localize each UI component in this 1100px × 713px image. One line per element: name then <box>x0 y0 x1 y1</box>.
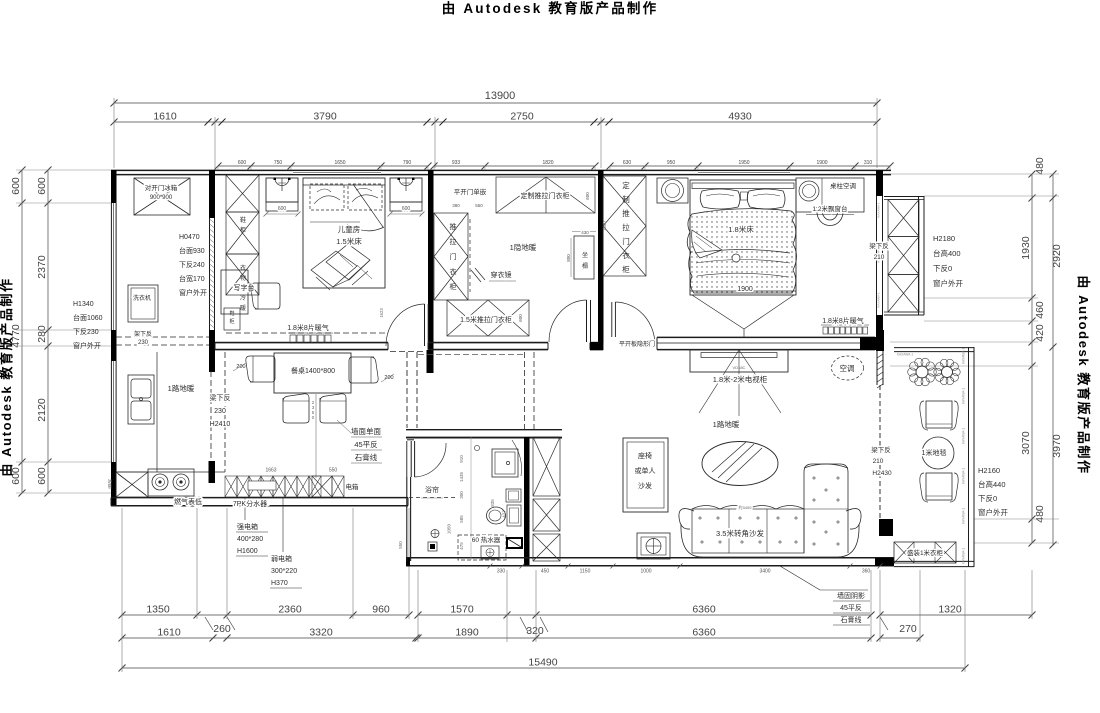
svg-text:柜: 柜 <box>450 282 457 291</box>
svg-text:对开门冰箱: 对开门冰箱 <box>145 183 178 192</box>
svg-text:KAXAWA-1: KAXAWA-1 <box>962 428 966 444</box>
svg-text:沙发: 沙发 <box>638 481 652 490</box>
svg-text:强电箱: 强电箱 <box>237 522 258 531</box>
svg-text:定制推拉门衣柜: 定制推拉门衣柜 <box>521 191 570 200</box>
svg-text:960: 960 <box>372 604 390 616</box>
svg-text:1435: 1435 <box>459 471 464 482</box>
svg-text:座椅: 座椅 <box>638 451 652 460</box>
svg-text:儿童房: 儿童房 <box>338 224 361 234</box>
svg-text:1623: 1623 <box>379 308 384 318</box>
svg-text:H0470: H0470 <box>179 234 200 241</box>
svg-text:600: 600 <box>36 177 48 195</box>
svg-text:933: 933 <box>452 160 461 166</box>
svg-text:900*900: 900*900 <box>150 195 173 201</box>
svg-text:H1600: H1600 <box>237 548 258 555</box>
svg-text:3320: 3320 <box>309 627 333 639</box>
svg-text:下反0: 下反0 <box>978 493 997 503</box>
svg-text:由 Autodesk 教育版产品制作: 由 Autodesk 教育版产品制作 <box>1076 275 1091 474</box>
svg-text:台高400: 台高400 <box>933 248 961 258</box>
svg-text:3.5米转角沙发: 3.5米转角沙发 <box>716 528 764 538</box>
svg-text:管: 管 <box>108 483 113 490</box>
svg-text:柜: 柜 <box>240 226 246 234</box>
svg-text:200: 200 <box>236 364 245 370</box>
svg-text:衣: 衣 <box>240 264 246 272</box>
svg-text:电箱: 电箱 <box>346 482 360 491</box>
svg-text:360: 360 <box>862 569 871 575</box>
svg-text:600: 600 <box>518 314 523 322</box>
svg-text:推: 推 <box>622 208 630 218</box>
svg-text:1900: 1900 <box>737 286 753 293</box>
svg-text:1.8米8片暖气: 1.8米8片暖气 <box>822 316 864 325</box>
svg-text:260: 260 <box>213 623 231 635</box>
svg-text:310: 310 <box>864 160 873 166</box>
svg-text:585: 585 <box>459 515 464 523</box>
svg-text:1663: 1663 <box>265 468 276 474</box>
svg-text:1.8米-2米电视柜: 1.8米-2米电视柜 <box>713 374 768 384</box>
svg-text:950: 950 <box>667 160 676 166</box>
svg-text:柜: 柜 <box>229 318 234 325</box>
svg-text:6360: 6360 <box>692 604 716 616</box>
svg-text:穿衣镜: 穿衣镜 <box>491 270 512 279</box>
svg-text:2120: 2120 <box>36 398 48 422</box>
svg-text:210: 210 <box>874 254 885 261</box>
svg-text:由 Autodesk 教育版产品制作: 由 Autodesk 教育版产品制作 <box>442 0 659 16</box>
svg-text:320: 320 <box>526 625 544 637</box>
svg-text:15490: 15490 <box>528 657 557 669</box>
svg-text:KAXAWA-1: KAXAWA-1 <box>962 468 966 484</box>
svg-text:280: 280 <box>36 325 48 343</box>
svg-text:物: 物 <box>240 274 246 282</box>
svg-text:270: 270 <box>899 623 917 635</box>
svg-text:1610: 1610 <box>153 111 177 123</box>
svg-text:鞋: 鞋 <box>240 216 246 224</box>
svg-text:210: 210 <box>873 458 884 465</box>
svg-text:KAXAWA-1: KAXAWA-1 <box>962 348 966 364</box>
svg-text:1.5米推拉门衣柜: 1.5米推拉门衣柜 <box>460 315 512 324</box>
svg-text:H2180: H2180 <box>933 234 955 243</box>
svg-text:窗户外开: 窗户外开 <box>933 278 963 288</box>
svg-text:窗户外开: 窗户外开 <box>179 288 207 297</box>
svg-text:1900: 1900 <box>816 160 827 166</box>
svg-text:石膏线: 石膏线 <box>355 452 378 462</box>
svg-text:300*220: 300*220 <box>271 568 297 575</box>
svg-text:门: 门 <box>450 252 457 261</box>
svg-text:1350: 1350 <box>146 604 170 616</box>
svg-text:1000: 1000 <box>640 569 651 575</box>
svg-text:燃气表低: 燃气表低 <box>174 497 202 506</box>
svg-text:60 热水器: 60 热水器 <box>472 535 501 544</box>
svg-text:KAXAWA-1: KAXAWA-1 <box>962 388 966 404</box>
svg-text:3790: 3790 <box>313 111 337 123</box>
svg-text:梁下反: 梁下反 <box>210 393 231 402</box>
svg-text:冷: 冷 <box>240 294 246 302</box>
svg-text:600: 600 <box>278 206 287 212</box>
svg-text:910: 910 <box>459 455 464 463</box>
svg-text:2750: 2750 <box>510 111 534 123</box>
svg-text:800: 800 <box>566 254 571 262</box>
svg-text:4930: 4930 <box>728 111 752 123</box>
svg-text:坐: 坐 <box>582 251 588 259</box>
svg-text:450: 450 <box>541 569 550 575</box>
svg-text:定: 定 <box>622 180 630 190</box>
svg-text:或单人: 或单人 <box>635 466 656 475</box>
svg-text:1320: 1320 <box>938 604 962 616</box>
svg-text:600: 600 <box>10 177 22 195</box>
svg-text:柜: 柜 <box>622 264 630 274</box>
svg-text:1500: 1500 <box>248 283 253 293</box>
svg-text:衣: 衣 <box>450 267 457 276</box>
svg-text:1.8米8片暖气: 1.8米8片暖气 <box>287 323 329 332</box>
svg-text:330: 330 <box>497 569 506 575</box>
svg-text:梁下反: 梁下反 <box>869 241 889 250</box>
svg-text:拉: 拉 <box>622 222 630 232</box>
svg-text:1.8米床: 1.8米床 <box>728 224 754 234</box>
svg-text:200: 200 <box>384 375 393 381</box>
svg-text:梁下反: 梁下反 <box>871 445 891 454</box>
svg-text:推: 推 <box>450 222 457 231</box>
svg-text:1950: 1950 <box>738 160 749 166</box>
svg-text:KAXAWA-1: KAXAWA-1 <box>962 508 966 524</box>
svg-text:桌柱空调: 桌柱空调 <box>830 181 856 190</box>
svg-text:下反0: 下反0 <box>933 263 952 273</box>
svg-text:1.2米飘窗台: 1.2米飘窗台 <box>812 204 847 213</box>
svg-text:空调: 空调 <box>840 363 855 373</box>
svg-text:H2410: H2410 <box>210 421 231 428</box>
svg-text:1820: 1820 <box>542 160 553 166</box>
svg-text:窗户外开: 窗户外开 <box>978 507 1008 517</box>
svg-text:3070: 3070 <box>1020 431 1032 455</box>
svg-text:拉: 拉 <box>450 237 457 246</box>
svg-text:1890: 1890 <box>455 627 479 639</box>
svg-text:约3400: 约3400 <box>739 504 753 510</box>
svg-text:鞋: 鞋 <box>229 310 234 317</box>
svg-text:餐桌1400*800: 餐桌1400*800 <box>291 366 335 375</box>
svg-text:暖: 暖 <box>240 304 246 312</box>
svg-text:1隐地暖: 1隐地暖 <box>510 242 537 252</box>
svg-text:1.5米床: 1.5米床 <box>336 236 362 246</box>
svg-text:3970: 3970 <box>1051 434 1063 458</box>
svg-text:3400: 3400 <box>759 569 770 575</box>
svg-text:台面1060: 台面1060 <box>73 313 103 322</box>
svg-text:1800: 1800 <box>602 221 607 231</box>
svg-text:KAXAWA-1: KAXAWA-1 <box>962 548 966 564</box>
svg-text:石膏线: 石膏线 <box>841 615 862 624</box>
svg-text:盛装1米衣柜: 盛装1米衣柜 <box>907 548 944 557</box>
svg-text:弱电箱: 弱电箱 <box>271 554 292 563</box>
svg-text:衣: 衣 <box>622 250 630 260</box>
svg-text:790: 790 <box>403 160 412 166</box>
svg-text:台高440: 台高440 <box>978 479 1006 489</box>
svg-text:浴帘: 浴帘 <box>425 485 439 494</box>
svg-text:1米地毯: 1米地毯 <box>922 448 947 457</box>
svg-text:KAXAWA-1: KAXAWA-1 <box>897 353 913 357</box>
svg-text:2360: 2360 <box>278 604 302 616</box>
svg-text:7PK分水器: 7PK分水器 <box>233 499 267 508</box>
svg-text:230: 230 <box>214 408 226 415</box>
svg-text:630: 630 <box>623 160 632 166</box>
svg-text:420: 420 <box>1034 324 1046 342</box>
svg-text:1路地暖: 1路地暖 <box>713 419 740 429</box>
svg-text:600: 600 <box>238 160 247 166</box>
svg-text:550: 550 <box>475 203 483 208</box>
svg-text:墙面单面: 墙面单面 <box>351 426 381 436</box>
svg-text:230: 230 <box>138 340 149 346</box>
svg-text:H2430: H2430 <box>872 470 892 477</box>
svg-text:由 Autodesk 教育版产品制作: 由 Autodesk 教育版产品制作 <box>0 277 14 476</box>
svg-text:台面930: 台面930 <box>179 246 205 255</box>
svg-text:1路地暖: 1路地暖 <box>168 383 195 393</box>
svg-text:1610: 1610 <box>157 627 181 639</box>
svg-text:H370: H370 <box>271 580 288 587</box>
svg-text:下反240: 下反240 <box>179 260 205 269</box>
svg-text:榻: 榻 <box>582 262 588 270</box>
svg-text:KAXAWA-1: KAXAWA-1 <box>877 292 881 308</box>
svg-text:45平反: 45平反 <box>354 439 378 449</box>
svg-text:门: 门 <box>622 237 630 246</box>
svg-text:下反230: 下反230 <box>73 327 99 336</box>
svg-text:835: 835 <box>490 499 495 507</box>
svg-text:480: 480 <box>1034 505 1046 523</box>
svg-text:600: 600 <box>402 206 411 212</box>
svg-text:墙固阴影: 墙固阴影 <box>837 591 865 600</box>
svg-text:475: 475 <box>459 542 464 550</box>
svg-text:洗衣机: 洗衣机 <box>133 294 151 302</box>
svg-text:平开门单嵌: 平开门单嵌 <box>454 187 487 196</box>
svg-text:600: 600 <box>36 467 48 485</box>
svg-text:1150: 1150 <box>580 569 591 575</box>
svg-text:1650: 1650 <box>334 160 345 166</box>
svg-text:窗户外开: 窗户外开 <box>73 341 101 350</box>
svg-text:2370: 2370 <box>36 255 48 279</box>
svg-text:750: 750 <box>274 160 283 166</box>
svg-text:6360: 6360 <box>692 627 716 639</box>
svg-text:45平反: 45平反 <box>840 603 862 612</box>
svg-text:480: 480 <box>1034 157 1046 175</box>
svg-text:1050: 1050 <box>447 523 452 534</box>
svg-text:300: 300 <box>459 491 464 499</box>
svg-text:13900: 13900 <box>485 90 516 102</box>
svg-text:架下反: 架下反 <box>134 330 152 338</box>
svg-text:550: 550 <box>329 468 338 474</box>
svg-text:H2160: H2160 <box>978 466 1000 475</box>
svg-text:2920: 2920 <box>1051 244 1063 268</box>
svg-text:H1340: H1340 <box>73 301 94 308</box>
svg-text:制: 制 <box>622 194 630 204</box>
svg-text:430: 430 <box>581 230 589 235</box>
svg-text:600: 600 <box>585 192 590 200</box>
svg-text:400*280: 400*280 <box>237 536 263 543</box>
svg-text:平开板隐形门: 平开板隐形门 <box>619 340 655 348</box>
svg-text:1930: 1930 <box>1020 236 1032 260</box>
svg-text:1570: 1570 <box>450 604 474 616</box>
svg-text:460: 460 <box>1034 301 1046 319</box>
svg-text:台宽170: 台宽170 <box>179 274 205 283</box>
svg-text:KAXAWA-1: KAXAWA-1 <box>877 202 881 218</box>
svg-text:550: 550 <box>398 541 403 549</box>
svg-text:380: 380 <box>452 203 460 208</box>
